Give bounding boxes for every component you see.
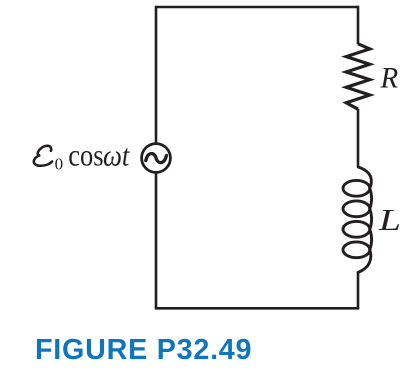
wire top horizontal xyxy=(156,6,358,9)
svg-text:R: R xyxy=(380,63,399,95)
wire left vertical upper xyxy=(155,6,158,144)
svg-text:ωt: ωt xyxy=(103,138,131,173)
svg-text:0: 0 xyxy=(55,155,64,174)
svg-text:L: L xyxy=(378,203,401,237)
svg-text:cos: cos xyxy=(68,138,103,173)
resistor R zigzag xyxy=(346,44,370,109)
inductor L coil xyxy=(358,167,371,272)
wire right vertical middle xyxy=(357,109,360,167)
wire left vertical lower xyxy=(155,172,158,308)
AC source V1 circle xyxy=(142,144,171,173)
wire right vertical upper xyxy=(357,6,360,45)
wire bottom horizontal xyxy=(155,307,360,310)
AC source sine tilde xyxy=(146,154,167,163)
wire right vertical lower xyxy=(357,272,360,308)
svg-text:FIGURE P32.49: FIGURE P32.49 xyxy=(35,334,252,366)
script E (EMF symbol) xyxy=(34,146,52,166)
